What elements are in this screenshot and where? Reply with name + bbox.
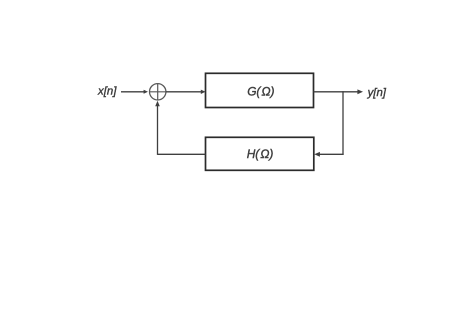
wire block G output to y[n]: [314, 89, 364, 94]
wire block H output back left: [158, 153, 206, 155]
wire branch down from output node: [342, 91, 344, 155]
block H: [206, 137, 314, 170]
node x[n] input label: [97, 86, 117, 98]
node y[n] output label: [367, 87, 387, 99]
svg-text:y[n]: y[n]: [367, 87, 387, 99]
wire input to summing junction: [121, 90, 148, 94]
wire feedback up to summing junction: [155, 101, 160, 155]
wire branch to block H input: [314, 152, 343, 157]
svg-text:G(Ω): G(Ω): [247, 84, 274, 98]
svg-text:x[n]: x[n]: [97, 86, 117, 98]
block G: [206, 73, 314, 107]
summing junction: [150, 84, 166, 100]
wire summing junction to block G: [166, 90, 205, 94]
svg-text:H(Ω): H(Ω): [247, 147, 274, 161]
